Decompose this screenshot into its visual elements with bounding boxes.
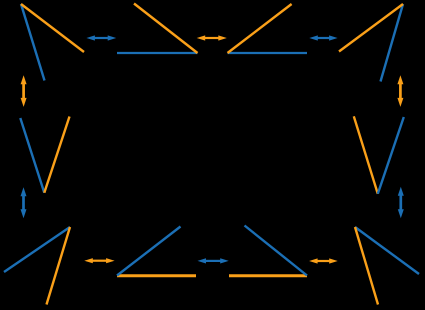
angle figure J (right-middle): blue ray (378, 117, 404, 194)
angle figure I (bottom-right): blue ray (355, 227, 419, 274)
angle figure E (left-middle): orange ray (44, 117, 69, 193)
arrow C-D (blue horizontal double arrow) (309, 35, 337, 40)
angle figure E (left-middle): blue ray (20, 118, 44, 193)
angle figure D (top-right): blue ray (381, 4, 404, 82)
arrow G-F (orange horizontal double arrow) (84, 258, 114, 263)
arrow H-G (blue horizontal double arrow) (198, 258, 229, 263)
arrow I-H (orange horizontal double arrow) (309, 258, 338, 263)
angle figure C (top-mid-right): orange ray (228, 4, 292, 53)
arrow B-C (orange horizontal double arrow) (197, 35, 227, 40)
angle figure G (bottom-mid-left): blue ray (117, 227, 181, 276)
angle figure D (top-right): orange ray (339, 4, 403, 52)
angle figure F (bottom-left): blue ray (4, 227, 70, 272)
angle figure A (top-left): blue ray (21, 4, 45, 81)
angle figure J (right-middle): orange ray (354, 116, 378, 194)
angle figure A (top-left): orange ray (21, 4, 84, 52)
angle figure B (top-mid-left): orange ray (134, 4, 198, 54)
arrow D-J (orange vertical double arrow, right side) (397, 75, 403, 107)
angle figure G (bottom-mid-left): orange horizontal ray (117, 274, 196, 277)
arrow E-A (orange vertical double arrow, left side) (21, 75, 27, 107)
angle figure H (bottom-mid-right): orange horizontal ray (229, 274, 307, 277)
angle figure H (bottom-mid-right): blue ray (245, 226, 308, 276)
arrow F-E (blue vertical double arrow, left side) (21, 187, 27, 218)
arrow A-B (blue horizontal double arrow) (86, 35, 116, 40)
angle figure I (bottom-right): orange ray (355, 227, 378, 305)
angle figure B (top-mid-left): blue horizontal ray (117, 52, 198, 54)
angle figure C (top-mid-right): blue horizontal ray (228, 52, 308, 54)
angle figure F (bottom-left): orange ray (47, 227, 71, 305)
arrow J-I (blue vertical double arrow, right side) (398, 187, 404, 219)
